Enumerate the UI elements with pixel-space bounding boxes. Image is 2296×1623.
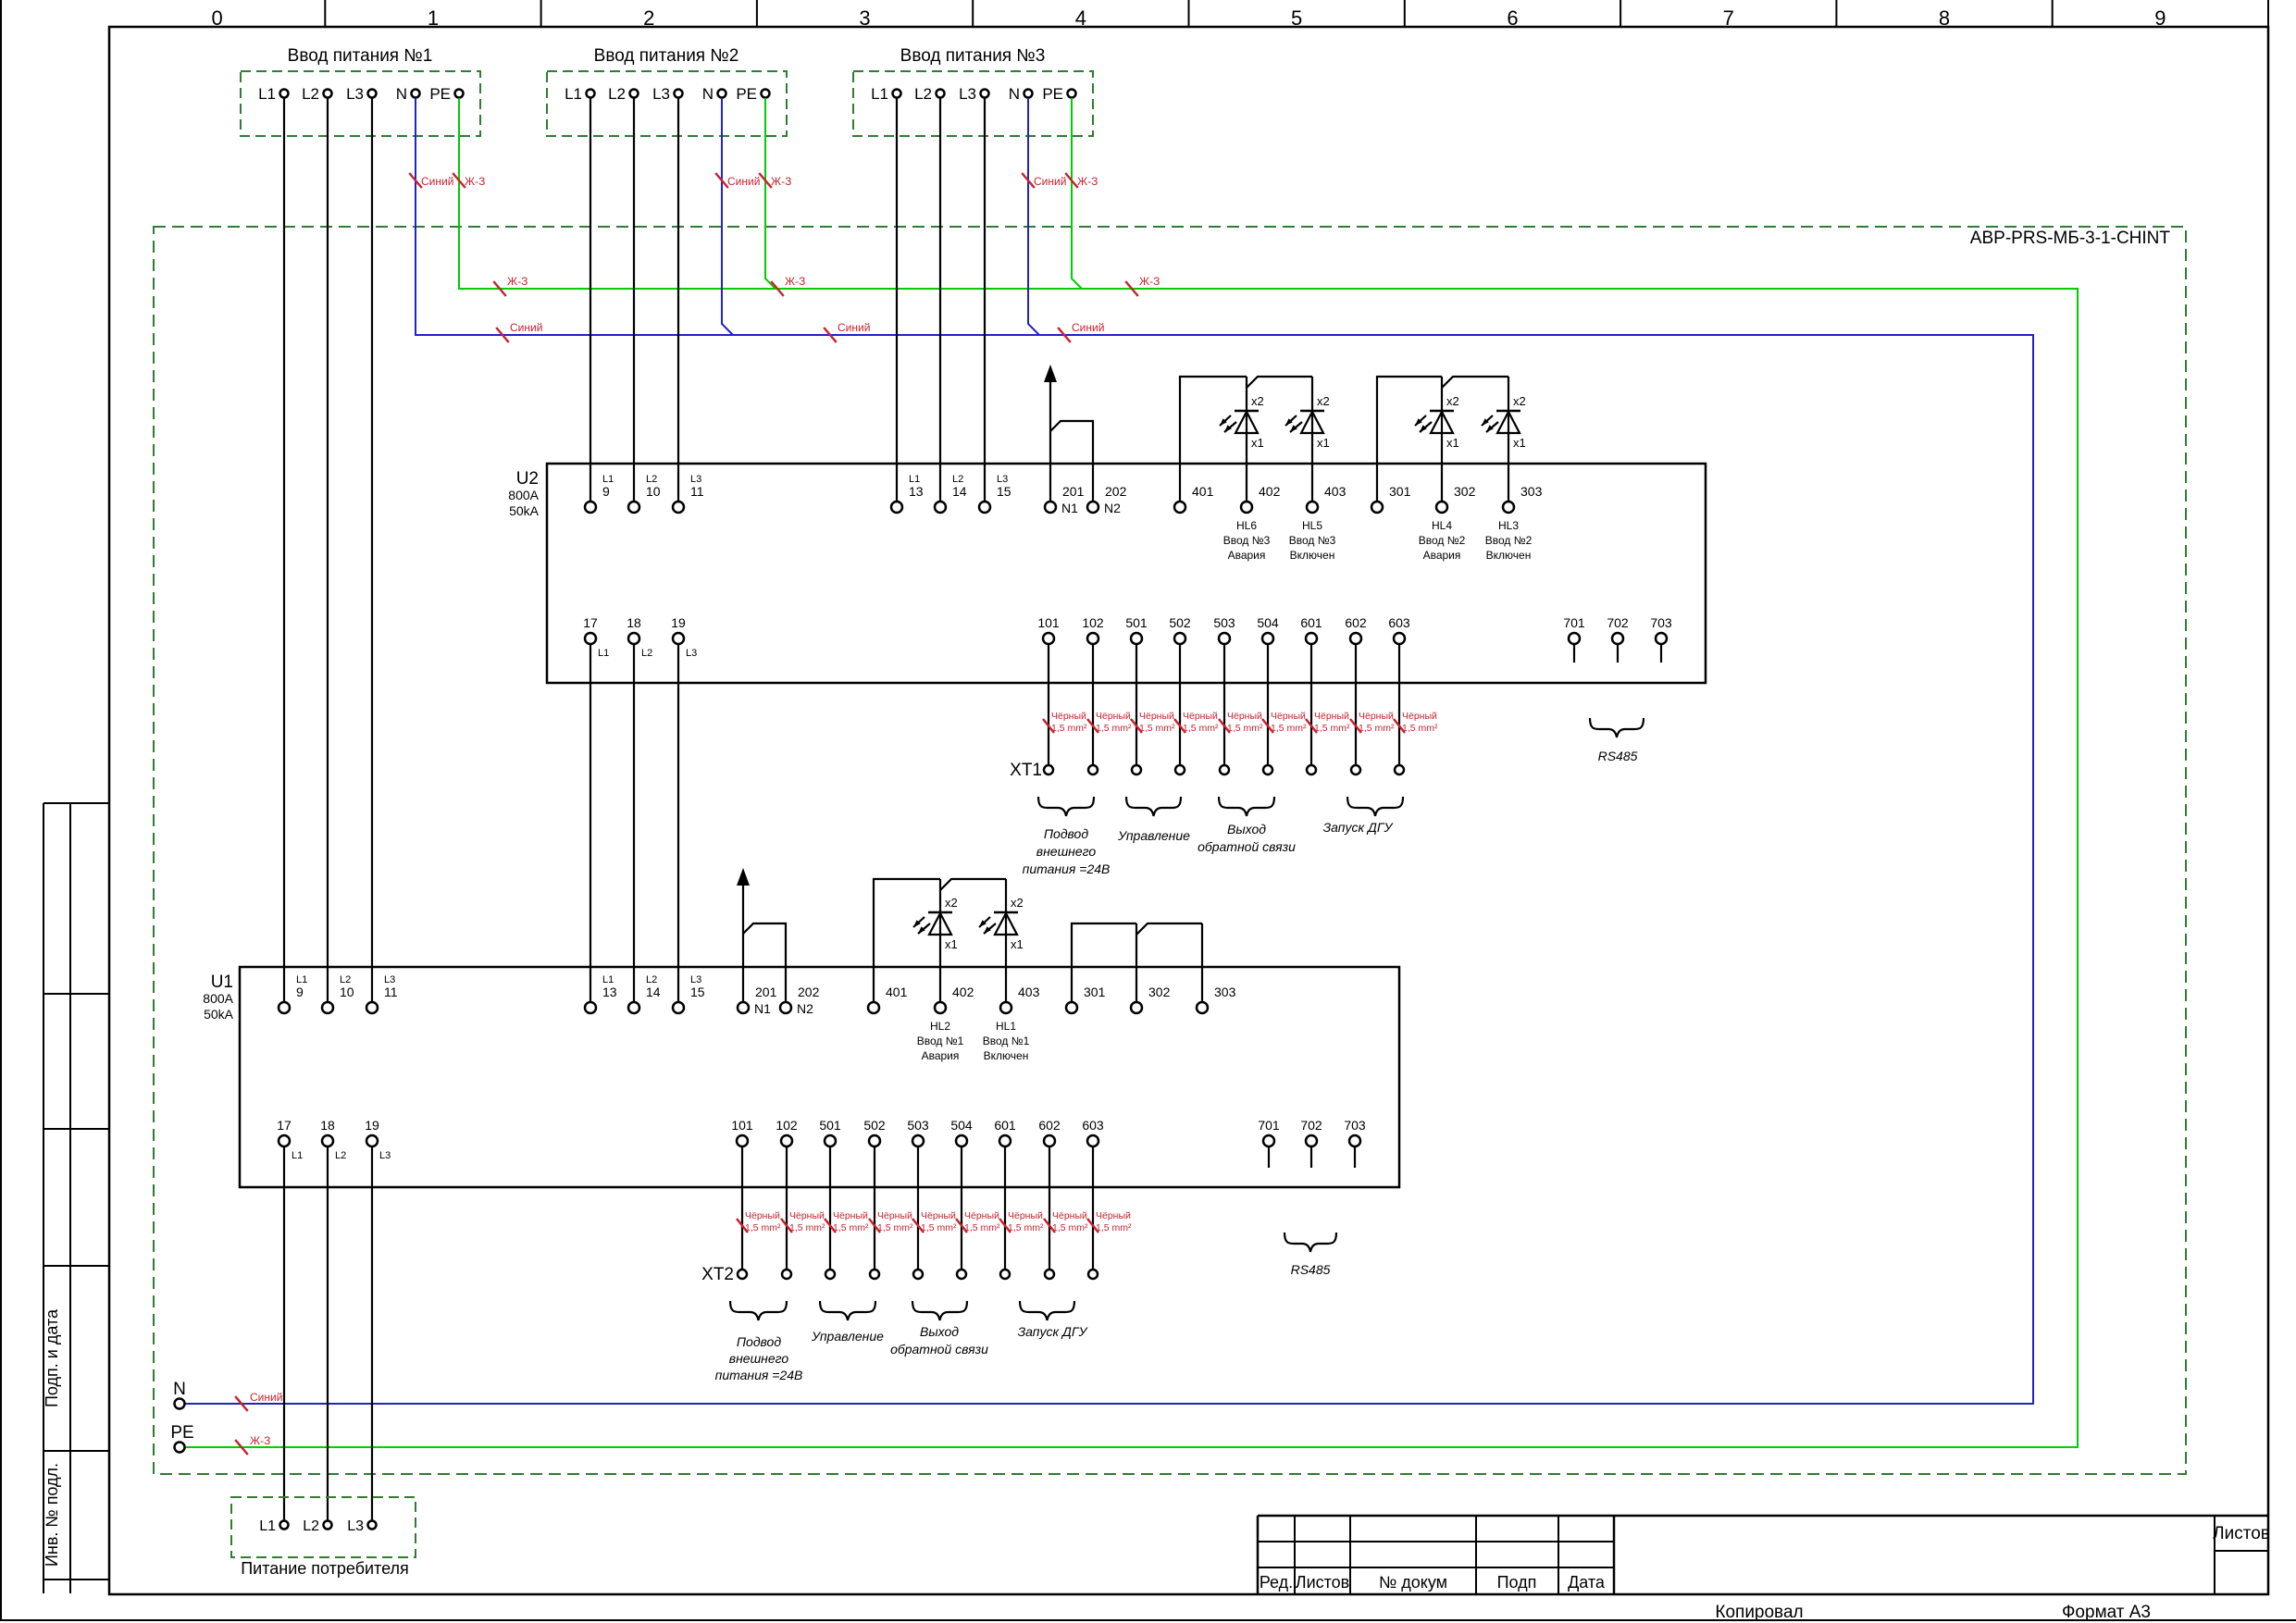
svg-text:N: N [173, 1380, 186, 1399]
terminal 302 [1436, 502, 1447, 513]
svg-text:L2: L2 [340, 974, 351, 985]
svg-text:Чёрный: Чёрный [1096, 711, 1131, 722]
N wire (Синий) from Ввод №1 - blue bus [185, 98, 2033, 1404]
brace RS485 (U1) [1285, 1233, 1336, 1252]
svg-text:Чёрный: Чёрный [1183, 711, 1218, 722]
XT1 terminal [1395, 765, 1404, 774]
wire colour label Синий [409, 173, 422, 188]
terminal L1 of Ввод питания №2 [587, 90, 595, 98]
svg-text:202: 202 [1105, 484, 1127, 499]
svg-text:L3: L3 [379, 1150, 391, 1161]
colour label Ж-З on PE wire [235, 1440, 248, 1455]
svg-text:Ввод №3: Ввод №3 [1289, 534, 1336, 547]
svg-text:Чёрный: Чёрный [833, 1210, 868, 1221]
wire U1 602 to XT2 [1049, 1146, 1050, 1270]
wire Ввод №1 L2 to U1 terminal 10 [327, 98, 329, 1002]
svg-text:402: 402 [1259, 484, 1281, 499]
terminal 402 [935, 1002, 946, 1013]
svg-text:Ввод питания №1: Ввод питания №1 [288, 46, 433, 66]
brace Управление (XT2) [820, 1301, 875, 1320]
svg-text:HL6: HL6 [1236, 519, 1257, 532]
terminal 202 [1087, 502, 1098, 513]
svg-text:301: 301 [1084, 985, 1106, 999]
terminal 14 [935, 502, 946, 513]
wire U2 503 to XT1 [1223, 644, 1225, 765]
svg-text:1,5 mm²: 1,5 mm² [1402, 723, 1438, 734]
XT2 terminal [1000, 1270, 1010, 1279]
LED HL1 [994, 911, 1018, 914]
terminal 602 [1350, 633, 1361, 644]
terminal 401 [1174, 502, 1185, 513]
XT2 terminal [1045, 1270, 1054, 1279]
colour label Синий on N wire [235, 1396, 248, 1411]
wire U2 101 to XT1 [1048, 644, 1049, 765]
svg-text:1,5 mm²: 1,5 mm² [1096, 723, 1132, 734]
brace Выход обратной связи (XT2) [912, 1301, 967, 1320]
svg-text:102: 102 [776, 1118, 798, 1133]
svg-text:4: 4 [1075, 6, 1086, 30]
svg-text:x1: x1 [1446, 436, 1459, 450]
svg-text:Ред.: Ред. [1260, 1573, 1293, 1592]
svg-text:Ж-З: Ж-З [785, 275, 805, 288]
terminal 503 [1219, 633, 1230, 644]
svg-text:Синий: Синий [421, 175, 453, 188]
svg-text:Включен: Включен [984, 1049, 1029, 1062]
svg-text:1,5 mm²: 1,5 mm² [921, 1222, 957, 1233]
svg-text:9: 9 [602, 484, 610, 499]
svg-text:HL5: HL5 [1302, 519, 1322, 532]
svg-text:8: 8 [1939, 6, 1950, 30]
svg-text:Авария: Авария [922, 1049, 960, 1062]
svg-text:Подвод: Подвод [737, 1334, 781, 1349]
svg-text:N: N [702, 85, 714, 103]
terminal 402 [1241, 502, 1252, 513]
svg-text:17: 17 [583, 615, 598, 630]
XT2 terminal [870, 1270, 879, 1279]
XT1 terminal [1088, 765, 1098, 774]
svg-text:13: 13 [909, 484, 924, 499]
bus colour label Синий [496, 328, 509, 342]
brace Управление (XT1) [1126, 797, 1181, 816]
U1 terminal 401 wire and LED bracket [874, 879, 940, 1002]
svg-text:Чёрный: Чёрный [1227, 711, 1262, 722]
svg-text:601: 601 [1300, 615, 1322, 630]
terminal 18 [628, 633, 639, 644]
wire colour label Синий [1022, 173, 1035, 188]
svg-text:L3: L3 [690, 974, 701, 985]
LED HL6 [1235, 410, 1259, 413]
wire U1 503 to XT2 [917, 1146, 919, 1270]
terminal 703 [1656, 633, 1667, 644]
terminal N of Ввод питания №3 [1024, 90, 1033, 98]
svg-text:701: 701 [1563, 615, 1585, 630]
svg-text:703: 703 [1344, 1118, 1366, 1133]
terminal 502 [869, 1135, 880, 1146]
terminal L3 of Ввод питания №3 [981, 90, 989, 98]
XT2 terminal [825, 1270, 835, 1279]
bus colour label Синий [824, 328, 837, 342]
wire Ввод №1 L3 to U1 terminal 11 [371, 98, 373, 1002]
U2 terminal 301 wire and LED bracket [1377, 377, 1442, 502]
wire U2 501 to XT1 [1136, 644, 1137, 765]
svg-text:603: 603 [1388, 615, 1410, 630]
svg-text:3: 3 [859, 6, 870, 30]
wire U2 603 to XT1 [1398, 644, 1400, 765]
svg-text:5: 5 [1291, 6, 1302, 30]
terminal 501 [825, 1135, 836, 1146]
svg-text:603: 603 [1082, 1118, 1104, 1133]
svg-text:401: 401 [1192, 484, 1214, 499]
svg-text:L1: L1 [598, 648, 609, 659]
svg-text:50kA: 50kA [204, 1007, 234, 1022]
terminal 10 [628, 502, 639, 513]
svg-text:N2: N2 [797, 1001, 813, 1016]
terminal 17 [585, 633, 596, 644]
U1 terminal 301-303 bracket [1072, 923, 1136, 1002]
svg-text:Копировал: Копировал [1715, 1603, 1803, 1622]
svg-text:Синий: Синий [838, 321, 870, 334]
terminal L1 of Ввод питания №1 [280, 90, 289, 98]
terminal 18 [322, 1135, 333, 1146]
wire Ввод №2 L1 to U2 terminal 9 [590, 98, 591, 502]
svg-text:Чёрный: Чёрный [1402, 711, 1437, 722]
svg-text:Чёрный: Чёрный [921, 1210, 956, 1221]
svg-text:800A: 800A [203, 991, 233, 1006]
svg-text:внешнего: внешнего [729, 1351, 789, 1366]
svg-text:13: 13 [602, 985, 617, 999]
svg-text:504: 504 [950, 1118, 973, 1133]
enclosure АВР-PRS-МБ-3-1-CHINT dashed boundary [154, 227, 2186, 1474]
svg-text:Листов: Листов [1296, 1573, 1349, 1592]
bus colour label Ж-З [771, 281, 784, 296]
svg-text:10: 10 [340, 985, 354, 999]
svg-text:14: 14 [646, 985, 661, 999]
consumer terminal L2 [324, 1521, 332, 1530]
wire Ввод №3 L3 to U2 terminal 15 [984, 98, 986, 502]
svg-text:602: 602 [1038, 1118, 1061, 1133]
wire U1 terminal 18 to consumer [327, 1146, 329, 1520]
terminal 504 [1262, 633, 1273, 644]
svg-text:HL1: HL1 [996, 1020, 1016, 1033]
svg-text:N1: N1 [1061, 501, 1078, 515]
svg-text:800A: 800A [508, 488, 539, 502]
svg-text:Ввод №2: Ввод №2 [1485, 534, 1533, 547]
svg-text:№ докум: № докум [1379, 1573, 1447, 1592]
svg-text:x2: x2 [1317, 394, 1330, 408]
U2 terminal 401 wire and LED bracket [1180, 377, 1247, 502]
wire colour label Синий [715, 173, 728, 188]
svg-text:Подп. и дата: Подп. и дата [43, 1308, 61, 1407]
svg-text:U1: U1 [211, 973, 233, 992]
svg-text:402: 402 [952, 985, 974, 999]
svg-text:Ввод №1: Ввод №1 [917, 1035, 964, 1047]
wire Ввод №2 L2 to U2 terminal 10 [633, 98, 635, 502]
consumer terminal L1 [280, 1521, 289, 1530]
wire U2 terminal 19 to U1 [677, 644, 679, 1002]
svg-text:1,5 mm²: 1,5 mm² [1271, 723, 1307, 734]
wire U1 101 to XT2 [741, 1146, 743, 1270]
wire Ввод №2 L3 to U2 terminal 11 [677, 98, 679, 502]
consumer terminal L3 [368, 1521, 377, 1530]
svg-text:1,5 mm²: 1,5 mm² [1139, 723, 1175, 734]
N wire from Ввод №2 joining blue bus [722, 98, 733, 335]
terminal 702 [1306, 1135, 1317, 1146]
terminal 602 [1044, 1135, 1055, 1146]
svg-text:RS485: RS485 [1291, 1262, 1331, 1277]
terminal L3 of Ввод питания №1 [368, 90, 377, 98]
svg-text:внешнего: внешнего [1036, 844, 1097, 859]
svg-text:HL2: HL2 [930, 1020, 950, 1033]
svg-text:403: 403 [1018, 985, 1040, 999]
svg-text:202: 202 [798, 985, 820, 999]
svg-text:1,5 mm²: 1,5 mm² [1051, 723, 1087, 734]
svg-text:15: 15 [997, 484, 1011, 499]
svg-text:x1: x1 [1011, 937, 1024, 951]
svg-text:701: 701 [1258, 1118, 1280, 1133]
svg-text:1,5 mm²: 1,5 mm² [1314, 723, 1350, 734]
title block [1258, 1515, 2268, 1518]
svg-text:PE: PE [170, 1423, 193, 1443]
wire U2 terminal 18 to U1 [633, 644, 635, 1002]
svg-text:Подвод: Подвод [1044, 826, 1088, 841]
terminal 9 [279, 1002, 290, 1013]
svg-text:Чёрный: Чёрный [1096, 1210, 1131, 1221]
svg-text:501: 501 [1125, 615, 1148, 630]
svg-text:1,5 mm²: 1,5 mm² [877, 1222, 913, 1233]
svg-text:Ж-З: Ж-З [1139, 275, 1160, 288]
svg-text:Подп: Подп [1497, 1573, 1537, 1592]
svg-text:Авария: Авария [1228, 549, 1266, 562]
svg-text:201: 201 [1062, 484, 1085, 499]
terminal 9 [585, 502, 596, 513]
svg-text:Управление: Управление [1117, 828, 1190, 843]
terminal 702 [1612, 633, 1623, 644]
terminal N of Ввод питания №1 [412, 90, 420, 98]
terminal 10 [322, 1002, 333, 1013]
svg-text:302: 302 [1148, 985, 1171, 999]
svg-text:Чёрный: Чёрный [1359, 711, 1394, 722]
XT2 terminal [738, 1270, 747, 1279]
svg-text:обратной связи: обратной связи [1198, 839, 1296, 854]
svg-text:501: 501 [819, 1118, 841, 1133]
wire colour label Ж-З [1065, 173, 1078, 188]
svg-text:Чёрный: Чёрный [1008, 1210, 1043, 1221]
wire 402 through LED HL6 [1246, 377, 1247, 502]
svg-text:L2: L2 [646, 474, 657, 485]
svg-text:питания =24В: питания =24В [715, 1368, 803, 1382]
svg-text:1,5 mm²: 1,5 mm² [1008, 1222, 1044, 1233]
wire Ввод №3 L2 to U2 terminal 14 [939, 98, 941, 502]
XT1 terminal [1263, 765, 1272, 774]
terminal 403 [1307, 502, 1318, 513]
svg-text:питания =24В: питания =24В [1023, 861, 1111, 876]
svg-text:x1: x1 [945, 937, 958, 951]
svg-text:HL4: HL4 [1432, 519, 1452, 532]
svg-text:1,5 mm²: 1,5 mm² [964, 1222, 1000, 1233]
svg-text:Запуск ДГУ: Запуск ДГУ [1018, 1324, 1089, 1339]
svg-text:6: 6 [1507, 6, 1518, 30]
svg-text:401: 401 [886, 985, 908, 999]
svg-text:15: 15 [690, 985, 705, 999]
svg-text:L1: L1 [565, 85, 582, 103]
bus colour label Синий [1058, 328, 1071, 342]
XT1 terminal [1351, 765, 1360, 774]
svg-text:1,5 mm²: 1,5 mm² [1183, 723, 1219, 734]
terminal 504 [956, 1135, 967, 1146]
svg-text:L1: L1 [871, 85, 888, 103]
wire 403 through LED HL5 [1311, 377, 1313, 502]
svg-text:x1: x1 [1251, 436, 1264, 450]
svg-text:101: 101 [731, 1118, 753, 1133]
terminal 701 [1263, 1135, 1274, 1146]
svg-text:503: 503 [907, 1118, 929, 1133]
terminal 15 [979, 502, 990, 513]
wire U1 504 to XT2 [961, 1146, 962, 1270]
svg-text:L2: L2 [641, 648, 652, 659]
U1 stub wire 702 [1310, 1146, 1312, 1168]
N wire from Ввод №3 joining blue bus [1028, 98, 1039, 335]
wire U1 501 to XT2 [829, 1146, 831, 1270]
terminal 13 [891, 502, 902, 513]
svg-text:Ввод №1: Ввод №1 [983, 1035, 1030, 1047]
svg-text:301: 301 [1389, 484, 1411, 499]
input box Ввод питания №1 [241, 71, 480, 136]
svg-text:Синий: Синий [250, 1391, 282, 1404]
brace Запуск ДГУ (XT1) [1347, 797, 1403, 816]
svg-text:17: 17 [277, 1118, 292, 1133]
svg-text:Питание потребителя: Питание потребителя [241, 1559, 409, 1578]
svg-text:Управление: Управление [811, 1329, 884, 1344]
terminal N of Ввод питания №2 [718, 90, 726, 98]
svg-text:N1: N1 [754, 1001, 771, 1016]
svg-text:502: 502 [863, 1118, 886, 1133]
terminal 302 [1131, 1002, 1142, 1013]
svg-text:503: 503 [1213, 615, 1235, 630]
XT2 terminal [782, 1270, 791, 1279]
stub wire 702 [1617, 644, 1619, 663]
svg-text:702: 702 [1607, 615, 1629, 630]
svg-text:АВР-PRS-МБ-3-1-CHINT: АВР-PRS-МБ-3-1-CHINT [1970, 229, 2171, 248]
svg-text:L3: L3 [347, 1518, 364, 1534]
svg-text:L3: L3 [959, 85, 976, 103]
wire 303 through LED HL3 [1508, 377, 1509, 502]
svg-text:2: 2 [643, 6, 654, 30]
U1 jumper jog 402-403 [940, 879, 1006, 890]
svg-text:602: 602 [1345, 615, 1367, 630]
wire U1 102 to XT2 [786, 1146, 788, 1270]
terminal 603 [1087, 1135, 1098, 1146]
wire U1 601 to XT2 [1004, 1146, 1006, 1270]
svg-text:Ввод питания №3: Ввод питания №3 [900, 46, 1046, 66]
svg-text:Синий: Синий [1034, 175, 1066, 188]
terminal 501 [1131, 633, 1142, 644]
svg-text:L1: L1 [292, 1150, 303, 1161]
svg-text:HL3: HL3 [1498, 519, 1519, 532]
PE wire (Ж-З) from Ввод №1 - green bus [185, 98, 2078, 1447]
svg-text:L1: L1 [296, 974, 307, 985]
svg-text:PE: PE [429, 85, 451, 103]
svg-text:Ж-З: Ж-З [250, 1434, 270, 1447]
svg-text:Выход: Выход [1227, 822, 1266, 836]
svg-text:N: N [396, 85, 407, 103]
jumper jog 302-303 [1442, 377, 1508, 388]
svg-text:403: 403 [1324, 484, 1347, 499]
terminal 102 [1087, 633, 1098, 644]
terminal L2 of Ввод питания №2 [630, 90, 639, 98]
ATS switch U1 800A 50kA body [240, 967, 1399, 1187]
svg-text:601: 601 [994, 1118, 1016, 1133]
XT1 terminal [1044, 765, 1053, 774]
LED HL5 [1300, 410, 1324, 413]
svg-text:1,5 mm²: 1,5 mm² [1052, 1222, 1088, 1233]
svg-text:L3: L3 [997, 474, 1008, 485]
svg-text:Включен: Включен [1486, 549, 1532, 562]
svg-text:1,5 mm²: 1,5 mm² [789, 1222, 825, 1233]
svg-text:Чёрный: Чёрный [877, 1210, 912, 1221]
svg-text:9: 9 [2154, 6, 2166, 30]
svg-text:N: N [1009, 85, 1020, 103]
svg-text:Листов: Листов [2213, 1524, 2270, 1543]
brace Запуск ДГУ (XT2) [1020, 1301, 1074, 1320]
svg-text:RS485: RS485 [1598, 749, 1638, 763]
svg-text:L3: L3 [690, 474, 701, 485]
svg-text:x1: x1 [1513, 436, 1526, 450]
brace Подвод внешнего питания =24В (XT1) [1038, 797, 1094, 816]
svg-text:201: 201 [755, 985, 777, 999]
svg-text:Авария: Авария [1423, 549, 1461, 562]
svg-text:x2: x2 [1446, 394, 1459, 408]
terminal 19 [673, 633, 684, 644]
wire U2 504 to XT1 [1267, 644, 1269, 765]
N1-N2 bridge jumper [1050, 421, 1093, 502]
terminal 601 [999, 1135, 1011, 1146]
svg-text:1,5 mm²: 1,5 mm² [1096, 1222, 1132, 1233]
brace RS485 (U2) [1590, 718, 1644, 737]
svg-text:11: 11 [690, 484, 704, 499]
terminal 102 [781, 1135, 792, 1146]
terminal 403 [1000, 1002, 1011, 1013]
svg-text:19: 19 [365, 1118, 379, 1133]
U1 stub wire 701 [1268, 1146, 1270, 1168]
svg-text:PE: PE [1042, 85, 1063, 103]
terminal L2 of Ввод питания №3 [937, 90, 945, 98]
svg-text:Чёрный: Чёрный [1271, 711, 1306, 722]
wire U2 502 to XT1 [1179, 644, 1181, 765]
svg-text:L2: L2 [914, 85, 932, 103]
brace Выход обратной связи (XT1) [1219, 797, 1274, 816]
terminal 703 [1349, 1135, 1360, 1146]
svg-text:Чёрный: Чёрный [745, 1210, 780, 1221]
terminal 301 [1371, 502, 1383, 513]
svg-text:Ввод питания №2: Ввод питания №2 [594, 46, 739, 66]
input box Ввод питания №3 [853, 71, 1093, 136]
svg-text:Формат А3: Формат А3 [2062, 1603, 2151, 1622]
svg-text:L2: L2 [335, 1150, 346, 1161]
svg-text:обратной связи: обратной связи [890, 1342, 988, 1357]
terminal L1 of Ввод питания №3 [893, 90, 901, 98]
U1 stub wire 703 [1354, 1146, 1356, 1168]
terminal 101 [1043, 633, 1054, 644]
svg-text:Запуск ДГУ: Запуск ДГУ [1323, 820, 1395, 835]
svg-text:x2: x2 [945, 896, 958, 910]
wire 402 through LED HL2 [939, 879, 941, 1002]
LED HL4 [1430, 410, 1454, 413]
brace Подвод внешнего питания =24В (XT2) [730, 1301, 787, 1320]
arrow to N bus [1044, 365, 1057, 382]
svg-text:L1: L1 [258, 85, 276, 103]
svg-text:101: 101 [1037, 615, 1060, 630]
svg-text:x2: x2 [1011, 896, 1024, 910]
